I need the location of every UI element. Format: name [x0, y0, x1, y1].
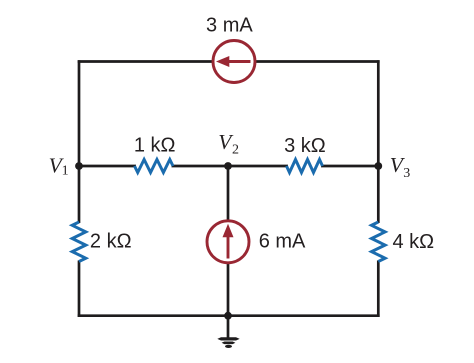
node V1 (junction dot)	[75, 162, 83, 170]
ground symbol	[217, 316, 239, 348]
svg-text:3 mA: 3 mA	[206, 14, 253, 36]
svg-text:2 kΩ: 2 kΩ	[90, 230, 132, 252]
wire right vertical upper (top corner to 4k resistor)	[377, 60, 380, 223]
wire middle 1k resistor to V2	[172, 165, 229, 168]
resistor 3 kOhm (horizontal)	[287, 160, 323, 173]
resistor 1 kOhm (horizontal)	[135, 160, 174, 173]
svg-text:4 kΩ: 4 kΩ	[393, 231, 435, 253]
current source 3 mA (top, arrow left)	[213, 41, 255, 83]
node ground junction dot	[224, 312, 232, 320]
node V2 (junction dot)	[224, 162, 232, 170]
node label V1	[49, 153, 69, 178]
svg-text:1 kΩ: 1 kΩ	[134, 135, 176, 157]
wire bottom rail	[78, 314, 380, 317]
wire left vertical lower (2k resistor to bottom corner)	[78, 261, 81, 318]
node label V2	[218, 130, 239, 158]
wire top rail V1-corner to V3-corner	[78, 60, 380, 63]
node label V3	[390, 153, 410, 181]
node V3 (junction dot)	[374, 162, 382, 170]
svg-text:2: 2	[232, 142, 239, 157]
resistor 2 kOhm (vertical, left)	[72, 222, 86, 262]
svg-text:1: 1	[62, 164, 69, 179]
svg-text:3: 3	[403, 166, 410, 181]
svg-text:6 mA: 6 mA	[259, 231, 306, 253]
wire middle V2 to 3k resistor	[228, 165, 288, 168]
wire middle 3k resistor to V3	[321, 165, 378, 168]
wire left vertical upper (top corner to 2k resistor)	[78, 60, 81, 223]
wire middle V1 to 1k resistor	[79, 165, 136, 168]
resistor 4 kOhm (vertical, right)	[372, 222, 386, 262]
wire center vertical V2 to ground node	[227, 166, 230, 316]
svg-text:3 kΩ: 3 kΩ	[284, 135, 326, 157]
wire right vertical lower (4k resistor to bottom corner)	[377, 261, 380, 318]
current source 6 mA (arrow up)	[207, 221, 249, 263]
